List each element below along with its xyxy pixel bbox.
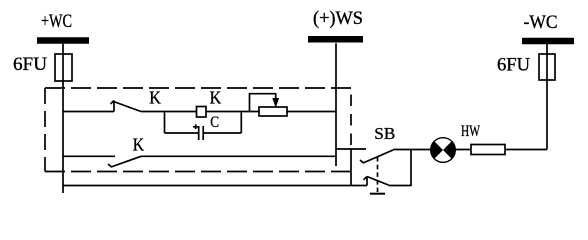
wire SB upper to lamp <box>393 149 432 151</box>
capacitor C right plate <box>202 126 204 140</box>
svg-text:K: K <box>133 134 145 154</box>
wire: -WC vertical <box>546 44 548 150</box>
dashed enclosure left edge <box>44 88 46 172</box>
busbar (+)WS <box>308 36 363 43</box>
rheostat wiper loop wire <box>250 94 276 112</box>
capacitor branch right vertical <box>240 112 242 134</box>
pushbutton SB actuator bar <box>370 193 385 195</box>
svg-text:SB: SB <box>374 124 395 143</box>
wire1 mid segment <box>141 111 197 113</box>
dashed enclosure top edge <box>45 87 351 89</box>
fuse 6FU (right) <box>539 54 555 80</box>
svg-text:-WC: -WC <box>524 12 558 33</box>
svg-text:HW: HW <box>461 123 481 140</box>
node vertical down to bottom wire <box>350 149 352 186</box>
capacitor branch bottom wire right <box>203 132 241 134</box>
lamp HW circle <box>431 138 456 163</box>
wire: WS vertical <box>335 43 337 166</box>
lamp HW left sector <box>431 141 443 158</box>
wire1 right segment to WS vertical <box>287 111 336 113</box>
wire1 left segment <box>63 111 114 113</box>
node wire WS to SB upper terminal <box>336 148 366 150</box>
wire3 bottom long wire <box>63 185 367 187</box>
pushbutton SB linkage (dashed) <box>377 157 379 192</box>
svg-text:(+)WS: (+)WS <box>313 8 363 29</box>
contact K1 fixed post <box>111 101 115 112</box>
wire resistor to -WC vertical <box>505 149 547 151</box>
dashed enclosure right edge <box>350 95 352 150</box>
svg-text:C: C <box>210 114 219 131</box>
wire2 right segment to WS vertical <box>141 155 336 157</box>
wire: main left vertical from +WC bus <box>62 44 64 193</box>
rheostat wiper arrow <box>274 99 278 105</box>
svg-text:K: K <box>210 87 222 107</box>
pushbutton SB upper blade <box>360 150 393 163</box>
capacitor branch left vertical <box>164 112 166 134</box>
capacitor branch bottom wire left <box>165 132 199 134</box>
capacitor polarity plus <box>193 124 198 129</box>
wire1 segment coil to rheostat <box>206 111 259 113</box>
busbar +WC <box>37 37 89 44</box>
busbar -WC <box>522 38 574 45</box>
svg-text:K: K <box>149 88 161 108</box>
resistor body <box>471 145 505 155</box>
contact K3 blade <box>108 156 141 167</box>
dashed enclosure bottom edge <box>45 171 351 173</box>
wire2 left segment <box>63 155 115 157</box>
rheostat resistor body <box>259 107 287 116</box>
pushbutton SB lower fixed post <box>364 177 368 186</box>
svg-text:6FU: 6FU <box>497 55 530 76</box>
relay coil K (square) <box>197 107 207 118</box>
wire SB lower right segment <box>389 185 412 187</box>
contact K1 blade <box>114 102 142 112</box>
lamp HW right sector <box>443 141 455 158</box>
wire SB right vertical joining upper and lower <box>410 150 412 187</box>
pushbutton SB lower blade <box>367 177 389 186</box>
fuse 6FU (left) <box>55 54 72 81</box>
wire lamp to resistor <box>455 149 471 151</box>
capacitor C left plate <box>198 126 200 140</box>
svg-text:6FU: 6FU <box>13 54 47 75</box>
svg-text:+WC: +WC <box>41 11 72 32</box>
